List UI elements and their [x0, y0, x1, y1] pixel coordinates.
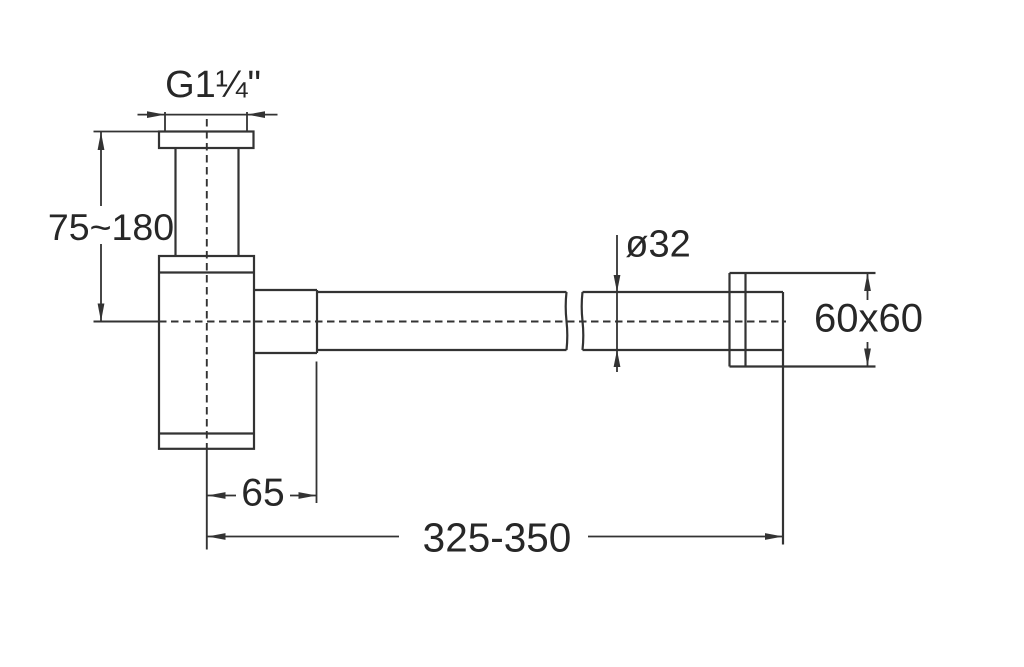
svg-text:65: 65	[241, 472, 284, 515]
svg-text:75~180: 75~180	[48, 206, 174, 248]
svg-text:ø32: ø32	[625, 224, 690, 266]
svg-text:G1¼": G1¼"	[165, 64, 261, 106]
svg-text:60x60: 60x60	[814, 297, 923, 341]
svg-text:325-350: 325-350	[423, 515, 572, 561]
